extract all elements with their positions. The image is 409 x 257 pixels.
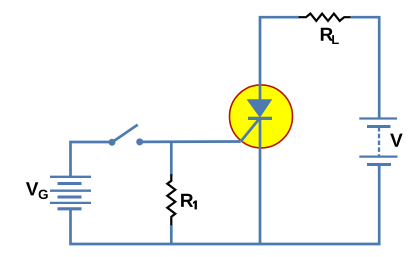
battery V plate 2 short bbox=[367, 125, 391, 128]
label VG bbox=[26, 182, 48, 199]
thyristor SCR body (yellow circle) bbox=[230, 85, 293, 148]
label RL bbox=[321, 28, 339, 44]
battery VG plate 1 long bbox=[50, 176, 91, 178]
resistor R1 bbox=[167, 174, 175, 226]
wire: gate diagonal into SCR bbox=[241, 119, 260, 142]
battery VG plate 3 long bbox=[50, 190, 91, 192]
battery V plate 3 long bbox=[359, 155, 397, 157]
battery V plate 4 short bbox=[367, 163, 391, 166]
resistor RL bbox=[299, 14, 351, 21]
battery VG plate 6 short bbox=[58, 207, 82, 210]
battery V dashed cell link bbox=[378, 127, 380, 157]
battery VG plate 5 long bbox=[50, 202, 91, 204]
battery VG plate 4 short bbox=[58, 195, 82, 198]
switch S contact dot right bbox=[136, 138, 143, 145]
wire: R1 branch lower bbox=[170, 225, 173, 244]
battery VG plate 2 short bbox=[58, 182, 82, 185]
wire: R1 branch upper bbox=[170, 142, 173, 175]
wire: SCR cathode down to bottom rail bbox=[259, 118, 262, 245]
wire: SCR anode up to top rail left of RL bbox=[260, 17, 299, 101]
label R1 bbox=[181, 194, 197, 210]
wire: switch to SCR gate (passes R1 junction) bbox=[140, 140, 241, 143]
switch S lever bbox=[112, 125, 138, 143]
battery V plate 1 long bbox=[359, 117, 397, 119]
wire: top rail right of RL down to battery V top bbox=[351, 17, 380, 118]
wire: left rail from VG top plate up and right to switch bbox=[71, 142, 111, 177]
thyristor SCR triangle (anode arrow) bbox=[247, 99, 273, 118]
switch S contact dot left bbox=[109, 139, 116, 146]
label V bbox=[390, 134, 402, 147]
thyristor SCR cathode bar bbox=[248, 117, 272, 120]
wire: bottom rail (VG bottom to battery V bottom) bbox=[71, 165, 380, 244]
